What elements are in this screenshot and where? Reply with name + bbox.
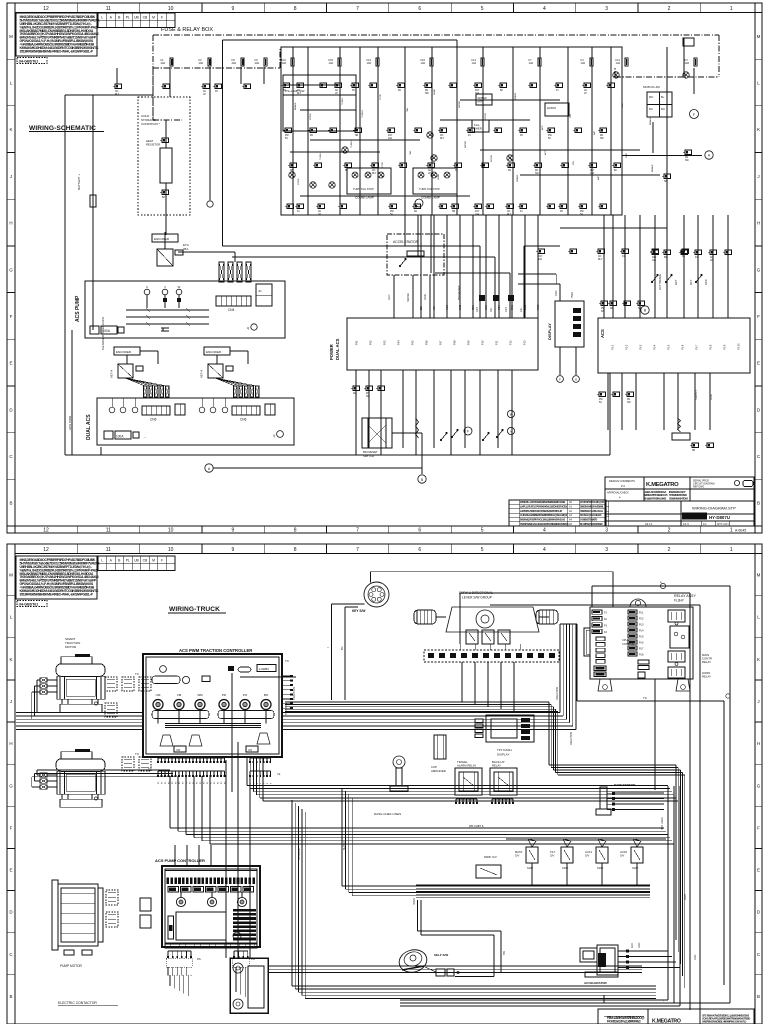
svg-text:RELAY: RELAY [702, 660, 711, 664]
svg-text:WU7KSP1W#CF-MK@CR: WU7KSP1W#CF-MK@CR [580, 501, 605, 504]
svg-text:1: 1 [730, 547, 733, 553]
svg-text:F: F [161, 559, 163, 563]
svg-text:S/V: S/V [620, 854, 625, 858]
svg-text:FL3HY: FL3HY [674, 599, 685, 603]
svg-text:TURN R: TURN R [362, 109, 364, 118]
svg-text:FU7: FU7 [639, 647, 644, 650]
svg-text:5A: 5A [285, 137, 288, 140]
svg-text:ELECTRIC CONTACTOR: ELECTRIC CONTACTOR [58, 1001, 97, 1005]
svg-text:SHT 1 OF 2: SHT 1 OF 2 [717, 523, 730, 526]
svg-text:ALARM RELAY: ALARM RELAY [457, 764, 477, 768]
svg-text:P1-4: P1-4 [654, 344, 657, 350]
svg-text:F: F [757, 314, 760, 319]
svg-text:9: 9 [232, 528, 235, 534]
svg-text:40A: 40A [199, 61, 204, 65]
svg-text:P08: P08 [453, 340, 457, 345]
svg-text:10A: 10A [652, 259, 657, 262]
svg-text:R1Y: R1Y [689, 279, 693, 285]
svg-text:AC: AC [335, 89, 339, 92]
svg-text:E: E [757, 868, 760, 873]
svg-text:DISPLAY: DISPLAY [547, 323, 552, 340]
svg-text:LIFT BRAKE: LIFT BRAKE [658, 274, 662, 290]
svg-text:BV: BV [340, 646, 344, 650]
svg-text:ENCODER: ENCODER [116, 350, 132, 354]
svg-text:SB: SB [452, 211, 456, 213]
svg-text:P1-1: P1-1 [612, 344, 615, 350]
svg-text:LP: LP [710, 260, 713, 262]
svg-text:MCB DC-DC: MCB DC-DC [643, 85, 661, 89]
svg-text:VET-A: VET-A [200, 370, 204, 378]
svg-text:R1Y: R1Y [652, 257, 657, 259]
svg-text:@#PL@7/U6T@7AR-BKKKMLS,/08DH8C: @#PL@7/U6T@7AR-BKKKMLS,/08DH8CRUOE& [520, 505, 567, 509]
svg-text:SEN: SEN [473, 305, 475, 310]
svg-text:C2L: C2L [490, 307, 493, 312]
svg-text:R1Y: R1Y [388, 135, 393, 137]
svg-text:S10Y: S10Y [562, 866, 569, 870]
svg-text:PL: PL [126, 16, 130, 20]
svg-text:R2Y: R2Y [674, 279, 678, 285]
svg-text:V: V [164, 285, 166, 289]
svg-text:40A: 40A [161, 61, 166, 65]
svg-text:M: M [152, 559, 155, 563]
svg-text:3: 3 [605, 6, 608, 12]
svg-text:AMPLIFIER: AMPLIFIER [431, 769, 446, 773]
svg-text:RLY: RLY [115, 94, 120, 96]
svg-text:K.MEGATRO: K.MEGATRO [646, 482, 679, 488]
svg-text:VM: VM [177, 693, 182, 697]
svg-text:FU8: FU8 [639, 653, 644, 656]
svg-text:10A: 10A [282, 61, 287, 65]
svg-text:UB: UB [134, 559, 139, 563]
svg-text:ACS PUMP CONTROLLER: ACS PUMP CONTROLLER [155, 858, 205, 863]
svg-text:UB: UB [134, 16, 139, 20]
svg-text:SW2: SW2 [525, 304, 527, 310]
svg-text:SPARE: SPARE [516, 174, 519, 182]
svg-text:GND: GND [626, 153, 628, 158]
svg-text:8: 8 [294, 547, 297, 553]
svg-text:CAN: CAN [485, 305, 488, 310]
svg-text:TRACTION: TRACTION [292, 687, 296, 700]
svg-text:LP: LP [203, 94, 206, 96]
svg-text:RLY: RLY [440, 138, 445, 140]
svg-text:SHER: SHER [474, 127, 482, 131]
svg-text:TFT DASH: TFT DASH [497, 748, 512, 752]
svg-text:6: 6 [418, 6, 421, 12]
svg-text:8: 8 [294, 528, 297, 534]
svg-text:M: M [757, 573, 761, 578]
svg-text:P2: P2 [165, 782, 167, 784]
svg-text:WIPER: WIPER [459, 100, 461, 108]
svg-text:POT: POT [499, 305, 501, 310]
svg-text:PO: PO [243, 693, 248, 697]
svg-text:IGN: IGN [573, 161, 575, 165]
svg-text:P.S+LAMP S/W: P.S+LAMP S/W [285, 89, 305, 93]
svg-text:PWR: PWR [571, 292, 574, 298]
svg-text:12: 12 [43, 6, 49, 12]
svg-text:SB: SB [692, 450, 696, 452]
svg-text:BUU3PKW4K6#.RPE6W: BUU3PKW4K6#.RPE6W [580, 523, 603, 526]
svg-text:MAST: MAST [515, 850, 523, 854]
svg-text:P2: P2 [211, 782, 213, 784]
svg-text:AC: AC [203, 90, 207, 93]
svg-text:LP: LP [584, 93, 587, 95]
svg-text:10: 10 [168, 528, 174, 534]
svg-text:5A: 5A [580, 213, 583, 216]
svg-text:CN: CN [598, 256, 602, 258]
svg-text:B: B [757, 501, 760, 506]
svg-text:MOTOR: MOTOR [65, 645, 77, 649]
svg-text:CN6: CN6 [240, 418, 247, 422]
svg-text:TAIL: TAIL [409, 150, 412, 155]
svg-text:P1-2: P1-2 [626, 344, 629, 350]
svg-text:RLY: RLY [372, 173, 377, 175]
svg-text:.HBTRPIG:5F8RCBFOP39B6N,/5BPK8: .HBTRPIG:5F8RCBFOP39B6N,/5BPK8TAL/R [520, 509, 562, 513]
svg-text:P05: P05 [411, 340, 415, 345]
svg-text:CN: CN [372, 170, 376, 172]
svg-text:CPU: CPU [622, 638, 628, 642]
svg-text:J: J [10, 699, 12, 704]
svg-text:ACC: ACC [446, 305, 449, 310]
svg-text:q: q [247, 326, 249, 330]
svg-text:1G: 1G [703, 522, 706, 526]
svg-text:GND: GND [694, 954, 697, 960]
svg-text:POWER: POWER [329, 344, 334, 360]
svg-text:K: K [757, 127, 760, 132]
svg-text:ROOM: ROOM [491, 155, 493, 162]
svg-text:ACCELERATOR: ACCELERATOR [393, 240, 419, 244]
svg-text:4: 4 [543, 528, 546, 534]
svg-text:J: J [757, 174, 759, 179]
svg-text:M: M [9, 573, 13, 578]
svg-text:100A: 100A [116, 435, 124, 439]
svg-text:A-0E45: A-0E45 [735, 529, 746, 533]
svg-text:BO: BO [264, 693, 269, 697]
svg-text:ENCODER: ENCODER [206, 350, 222, 354]
svg-text:GND: GND [638, 942, 641, 948]
svg-text:F: F [757, 825, 760, 830]
svg-text:11: 11 [106, 547, 111, 553]
svg-text:1-AWB4: 1-AWB4 [259, 667, 270, 671]
svg-text:P-F: P-F [621, 484, 626, 488]
svg-text:TURN L: TURN L [320, 151, 322, 160]
svg-text:11: 11 [106, 6, 111, 12]
svg-text:S10Y: S10Y [632, 866, 639, 870]
svg-text:P12: P12 [509, 340, 513, 345]
svg-text:P10: P10 [481, 340, 485, 345]
svg-text:PWR: PWR [538, 304, 540, 310]
svg-text:6: 6 [418, 547, 421, 553]
svg-text:ENCODER: ENCODER [154, 237, 170, 241]
svg-text:7: 7 [356, 547, 359, 553]
svg-text:4: 4 [543, 6, 546, 12]
svg-text:H: H [9, 221, 12, 226]
svg-text:CU/KW&-/GW929B3R7&06R8MDGH@KGL: CU/KW&-/GW929B3R7&06R8MDGH@KGL32I@9 [520, 513, 568, 517]
svg-text:SELF S/W: SELF S/W [434, 953, 448, 957]
svg-text:RESISTOR: RESISTOR [146, 143, 160, 147]
svg-text:B: B [9, 501, 12, 506]
svg-text:ACC: ACC [544, 150, 547, 155]
svg-text:ACS PUMP: ACS PUMP [75, 295, 81, 322]
svg-text:SPARE: SPARE [514, 92, 517, 100]
svg-text:P03: P03 [383, 340, 387, 345]
svg-text:CN4: CN4 [228, 308, 235, 312]
svg-text:B+: B+ [661, 95, 665, 99]
svg-text:35A: 35A [183, 247, 188, 251]
svg-text:1/1.5: 1/1.5 [683, 522, 689, 526]
svg-text:10A: 10A [472, 61, 477, 65]
svg-text:PA: PA [197, 957, 201, 961]
svg-text:40A: 40A [232, 61, 237, 65]
svg-text:BAT: BAT [593, 130, 596, 135]
svg-text:2M6OMUM/B2%%E8W#L: 2M6OMUM/B2%%E8W#L [580, 506, 604, 509]
svg-text:10A: 10A [329, 61, 334, 65]
svg-text:10A: 10A [421, 61, 426, 65]
svg-text:TRACTION: TRACTION [285, 703, 288, 715]
svg-text:HORN: HORN [310, 113, 312, 120]
svg-text:K: K [9, 657, 12, 662]
svg-text:ROOM: ROOM [485, 113, 487, 120]
svg-text:RELAY ASSY: RELAY ASSY [674, 594, 696, 598]
svg-text:P07: P07 [439, 340, 443, 345]
svg-text:FU3: FU3 [639, 623, 644, 626]
svg-text:H: H [9, 741, 12, 746]
svg-text:5A: 5A [601, 310, 604, 313]
svg-text:P06: P06 [425, 340, 429, 345]
svg-text:TURN TAIL STOP: TURN TAIL STOP [419, 187, 440, 191]
svg-text:E: E [9, 361, 12, 366]
svg-text:ACS PWM TRACTION CONTROLLER: ACS PWM TRACTION CONTROLLER [179, 648, 252, 653]
svg-text:1: 1 [730, 6, 733, 12]
svg-text:M: M [152, 16, 155, 20]
svg-text:F: F [10, 825, 13, 830]
svg-text:RLY: RLY [507, 214, 512, 216]
svg-text:10A: 10A [685, 61, 690, 65]
svg-text:SB: SB [638, 308, 642, 310]
svg-text:DC: DC [661, 107, 665, 111]
svg-text:AC: AC [428, 169, 432, 172]
svg-text:P2: P2 [221, 782, 223, 784]
svg-text:TILT: TILT [550, 850, 556, 854]
svg-text:2: 2 [668, 547, 671, 553]
svg-text:GND: GND [622, 103, 624, 108]
svg-text:r: r [663, 999, 664, 1003]
svg-text:FU6: FU6 [639, 641, 644, 644]
svg-text:5: 5 [481, 528, 484, 534]
svg-text:STOP: STOP [380, 94, 382, 100]
svg-text:KKUS1-F@FE-NUE.W0: KKUS1-F@FE-NUE.W0 [580, 514, 602, 517]
svg-text:WIPER: WIPER [465, 140, 467, 148]
svg-text:DISPLAY: DISPLAY [497, 753, 509, 757]
svg-text:BDI RESET: BDI RESET [457, 285, 461, 300]
svg-text:CONTROL: CONTROL [622, 642, 635, 646]
svg-text:CN: CN [440, 135, 444, 137]
svg-text:10A: 10A [538, 258, 543, 261]
svg-text:FU1: FU1 [639, 611, 644, 614]
svg-text:DESIGN COMMENTS: DESIGN COMMENTS [609, 479, 635, 483]
svg-text:5A: 5A [599, 401, 602, 404]
svg-text:2/H,&BKFHBWL6#82: 2/H,&BKFHBWL6#82 [644, 497, 667, 501]
svg-text:9: 9 [232, 547, 235, 553]
svg-text:P2: P2 [204, 782, 206, 784]
svg-text:E: E [757, 361, 760, 366]
svg-text:SB: SB [664, 181, 668, 183]
svg-text:P2: P2 [172, 782, 174, 784]
svg-text:10A: 10A [475, 213, 480, 216]
svg-text:AC: AC [710, 256, 714, 259]
svg-text:APPROVAL/CHECK: APPROVAL/CHECK [607, 492, 629, 495]
svg-text:7a: 7a [277, 772, 281, 776]
svg-text:M: M [757, 34, 761, 39]
svg-text:12: 12 [43, 528, 49, 534]
svg-text:9: 9 [232, 6, 235, 12]
svg-text:LP: LP [318, 214, 321, 216]
svg-text:ACS: ACS [600, 329, 605, 338]
svg-text:10A: 10A [529, 61, 534, 65]
svg-text:P1-10: P1-10 [738, 343, 741, 350]
svg-text:DUAL ACS: DUAL ACS [86, 414, 92, 440]
svg-text:HEAD: HEAD [437, 174, 440, 180]
svg-text:10A: 10A [581, 61, 586, 65]
svg-text:PARK S/V: PARK S/V [484, 855, 497, 859]
svg-text:ACC: ACC [631, 943, 634, 948]
svg-text:CONDITION *: CONDITION * [141, 122, 161, 126]
svg-text:BATTERY +: BATTERY + [77, 174, 81, 190]
svg-text:J: J [10, 174, 12, 179]
svg-text:DIRECTION: DIRECTION [570, 732, 573, 745]
svg-text:P2: P2 [183, 782, 185, 784]
svg-text:B: B [9, 994, 12, 999]
svg-text:→: → [143, 435, 147, 439]
svg-text:TURN L: TURN L [342, 96, 344, 105]
svg-text:J: J [757, 699, 759, 704]
svg-text:DUAL ACS: DUAL ACS [335, 338, 340, 360]
svg-text:5: 5 [481, 547, 484, 553]
svg-text:11: 11 [106, 528, 111, 534]
svg-text:M: M [9, 34, 13, 39]
svg-text:P1-5: P1-5 [668, 344, 671, 350]
svg-text:R1Y: R1Y [475, 211, 480, 213]
svg-text:TB2SFW#BE1AHUHW,C0EITKORE0BK/D: TB2SFW#BE1AHUHW,C0EITKORE0BK/DCMMS% [520, 522, 569, 526]
svg-text:C1H: C1H [505, 307, 508, 312]
svg-text:R1Y: R1Y [590, 170, 595, 172]
svg-text:ACC: ACC [541, 125, 544, 130]
svg-text:K.MEGATRO: K.MEGATRO [652, 1019, 681, 1024]
svg-text:TURN TAIL STOP: TURN TAIL STOP [353, 187, 374, 191]
svg-text:P2: P2 [214, 782, 216, 784]
svg-text:P13: P13 [523, 340, 527, 345]
svg-text:F: F [559, 378, 561, 382]
svg-text:L: L [101, 16, 103, 20]
svg-text:10: 10 [168, 6, 174, 12]
svg-text:H: H [757, 221, 760, 226]
svg-text:S10Y: S10Y [597, 866, 604, 870]
svg-text:ACC: ACC [704, 279, 708, 285]
svg-text:5A: 5A [390, 213, 393, 216]
svg-text:HEAD: HEAD [433, 89, 436, 95]
svg-text:HORN: HORN [547, 106, 556, 110]
svg-text:REF DWG: REF DWG [693, 486, 704, 489]
svg-text:G: G [9, 783, 13, 788]
svg-text:5: 5 [481, 6, 484, 12]
svg-text:PUMP MOTOR: PUMP MOTOR [60, 964, 83, 968]
svg-text:AC: AC [584, 89, 588, 92]
svg-text:W: W [510, 413, 513, 417]
svg-text:40A: 40A [255, 61, 260, 65]
svg-text:G: G [757, 783, 761, 788]
svg-text:P2: P2 [190, 782, 192, 784]
svg-text:S/V: S/V [515, 854, 520, 858]
svg-text:7: 7 [356, 6, 359, 12]
svg-text:HORN: HORN [298, 178, 300, 185]
svg-text:P1-8: P1-8 [710, 344, 713, 350]
svg-text:10A: 10A [367, 61, 372, 65]
svg-text:FUSE & RELAY BOX: FUSE & RELAY BOX [161, 27, 213, 33]
svg-text:U: U [146, 285, 148, 289]
svg-text:P02: P02 [369, 340, 373, 345]
svg-text:P11: P11 [495, 340, 499, 345]
svg-text:PL: PL [126, 559, 130, 563]
svg-text:VS: VS [248, 748, 252, 752]
svg-text:P2: P2 [207, 782, 209, 784]
svg-text:GND: GND [709, 394, 713, 400]
svg-text:S/V: S/V [585, 854, 590, 858]
svg-text:F: F [467, 430, 469, 434]
svg-text:SWITCH: SWITCH [363, 454, 374, 458]
svg-text:10A: 10A [616, 61, 621, 65]
svg-text:P2: P2 [218, 782, 220, 784]
svg-text:FU2: FU2 [639, 617, 644, 620]
svg-text:RELAY: RELAY [492, 764, 501, 768]
svg-text:3513R/4S6NKIBH8KME-RREO-WHK,-&: 3513R/4S6NKIBH8KME-RREO-WHK,-&KSIWPG82L-… [20, 49, 94, 53]
svg-text:MC: MC [649, 95, 653, 99]
svg-text:P2: P2 [162, 782, 164, 784]
svg-text:VET-A: VET-A [110, 370, 114, 378]
svg-text:2: 2 [668, 6, 671, 12]
svg-text:W84CRU-.-OI%TKB4ID,N0WDM9MHSMK: W84CRU-.-OI%TKB4ID,N0WDM9MHSMK3:4GB [520, 500, 565, 504]
svg-text:AUX1: AUX1 [585, 850, 593, 854]
svg-text:RELAY: RELAY [702, 675, 711, 679]
svg-text:SB: SB [355, 135, 359, 137]
svg-text:FU5: FU5 [639, 635, 644, 638]
svg-text:R1Y: R1Y [475, 90, 480, 92]
svg-text:P01: P01 [355, 340, 359, 345]
svg-text:3: 3 [605, 528, 608, 534]
svg-text:SW1: SW1 [512, 304, 514, 310]
svg-text:GND: GND [460, 305, 462, 310]
svg-text:3513R/4S6NKIBH8KME-RREO-WHK,-&: 3513R/4S6NKIBH8KME-RREO-WHK,-&KSIWPG82L-… [20, 592, 94, 596]
svg-text:IGN: IGN [570, 114, 572, 118]
svg-text:SUPPLY: SUPPLY [694, 390, 698, 400]
svg-text:B: B [421, 478, 423, 482]
svg-text:SUPPLY: SUPPLY [343, 840, 346, 850]
svg-text:F: F [10, 314, 13, 319]
svg-text:P1-6: P1-6 [682, 344, 685, 350]
svg-text:1: 1 [730, 528, 733, 534]
svg-text:STOP: STOP [382, 162, 384, 168]
svg-text:DASH-CHEK LINES: DASH-CHEK LINES [374, 812, 401, 816]
svg-text:JH-GBST61: JH-GBST61 [19, 59, 39, 63]
svg-text:E: E [9, 868, 12, 873]
svg-text:KSI: KSI [434, 306, 436, 310]
svg-text:BRAKE: BRAKE [294, 102, 297, 110]
svg-text:UM: UM [156, 693, 161, 697]
svg-text:GND: GND [423, 294, 427, 300]
svg-text:CAN: CAN [555, 291, 558, 296]
svg-text:R1Y: R1Y [538, 256, 543, 258]
svg-text:F: F [161, 16, 163, 20]
svg-text:P2: P2 [158, 782, 160, 784]
svg-text:L: L [101, 559, 103, 563]
